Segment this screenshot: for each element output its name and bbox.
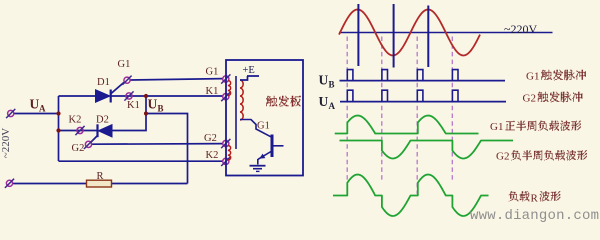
svg-text:D1: D1 (97, 77, 110, 88)
svg-text:G1: G1 (257, 121, 270, 132)
svg-text:U: U (148, 97, 158, 112)
svg-text:A: A (39, 104, 46, 114)
svg-text:D2: D2 (96, 115, 109, 126)
svg-text:G1: G1 (206, 67, 219, 78)
svg-text:G2: G2 (496, 151, 509, 163)
svg-text:B: B (158, 104, 164, 114)
svg-text:G2: G2 (523, 93, 536, 105)
svg-text:+E: +E (243, 65, 255, 76)
svg-text:U: U (319, 73, 329, 88)
svg-text:R: R (97, 171, 104, 182)
svg-text:U: U (319, 94, 329, 109)
svg-text:R: R (531, 193, 539, 205)
svg-text:G1: G1 (526, 71, 539, 83)
svg-text:K2: K2 (206, 150, 219, 161)
svg-text:K1: K1 (206, 86, 219, 97)
svg-text:www.diangon.com: www.diangon.com (470, 208, 599, 224)
svg-text:K2: K2 (69, 115, 82, 126)
svg-text:~220V: ~220V (0, 128, 12, 158)
svg-text:G2: G2 (72, 143, 85, 154)
svg-text:G1: G1 (118, 59, 131, 70)
svg-text:K1: K1 (127, 100, 140, 111)
svg-text:G2: G2 (204, 133, 217, 144)
svg-text:A: A (329, 101, 336, 111)
svg-text:~220V: ~220V (504, 22, 537, 36)
svg-text:G1: G1 (490, 121, 503, 133)
svg-text:U: U (30, 97, 40, 112)
svg-text:B: B (329, 80, 335, 90)
